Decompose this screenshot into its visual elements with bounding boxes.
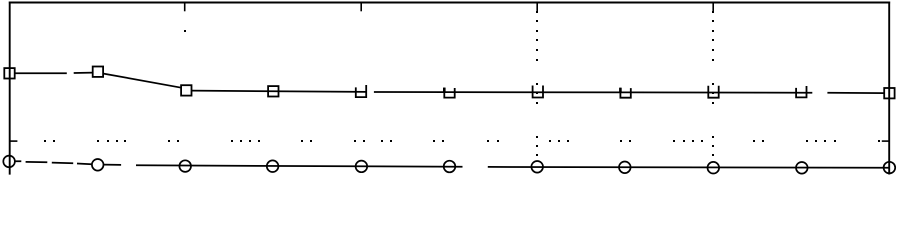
square marker S6 left stub [443, 88, 446, 93]
wire s2-s3 diagonal [104, 74, 182, 88]
circle marker C8 [619, 162, 631, 174]
wire c2 stub [104, 164, 122, 166]
circle marker C4 [267, 160, 279, 172]
wire s3-s5 [191, 91, 366, 92]
square marker S2 [93, 67, 103, 77]
gridline dots x=185 [184, 30, 186, 32]
wire c1-c2 dash c [77, 163, 92, 166]
wire s10-s11 [827, 92, 884, 94]
top tick 3 [536, 3, 538, 11]
circle marker C6 [444, 161, 456, 173]
wire c1-c2 dash a [26, 161, 48, 163]
top tick 2 [360, 3, 362, 11]
square marker S3 [181, 85, 191, 95]
square marker S8 left stub [619, 88, 622, 93]
square marker S11 [884, 88, 894, 98]
square marker S8 (open top) [620, 88, 630, 98]
wire c1-c2 dash b [52, 162, 73, 165]
square marker S5 (open top) [356, 85, 366, 97]
wire s5-s10 [374, 91, 812, 94]
circle marker C2 [92, 159, 104, 171]
circle marker C3 [179, 160, 191, 172]
wire c3-c6 [136, 165, 463, 167]
circle marker C9 [708, 162, 720, 174]
square markers [4, 67, 894, 99]
wire c7-c11 [488, 166, 889, 169]
circle markers [3, 156, 895, 174]
axis right border [888, 2, 890, 175]
circle marker C7 [531, 161, 543, 173]
gridline dots x=537 [536, 11, 538, 156]
square marker S7 (open top) [533, 86, 543, 98]
axis top border [9, 2, 890, 4]
circle marker C11 [884, 162, 896, 174]
top tick 4 [712, 3, 714, 11]
top tick 1 [184, 3, 186, 11]
wire s1-s2 dash b [74, 72, 94, 74]
axis left border [9, 2, 11, 175]
series 2 (circles) polyline segments [15, 161, 889, 168]
wire c1 stub [15, 160, 21, 162]
right tick [882, 140, 889, 142]
square marker S10 (open top) [796, 86, 806, 97]
horizontal dotted gridline y=141 [44, 140, 880, 142]
circle marker C5 [356, 161, 368, 173]
square marker S4 [268, 86, 278, 96]
square marker S1 [4, 68, 14, 78]
square marker S9 (open top) [708, 86, 718, 98]
gridline dots x=713 [712, 11, 714, 156]
circle marker C1 [3, 156, 15, 168]
left tick [10, 140, 18, 142]
wire s1-s2 dash a [15, 72, 67, 74]
circle marker C10 [796, 162, 808, 174]
square marker S6 (open top) [444, 88, 454, 98]
series 1 (squares) polyline segments [15, 73, 885, 94]
